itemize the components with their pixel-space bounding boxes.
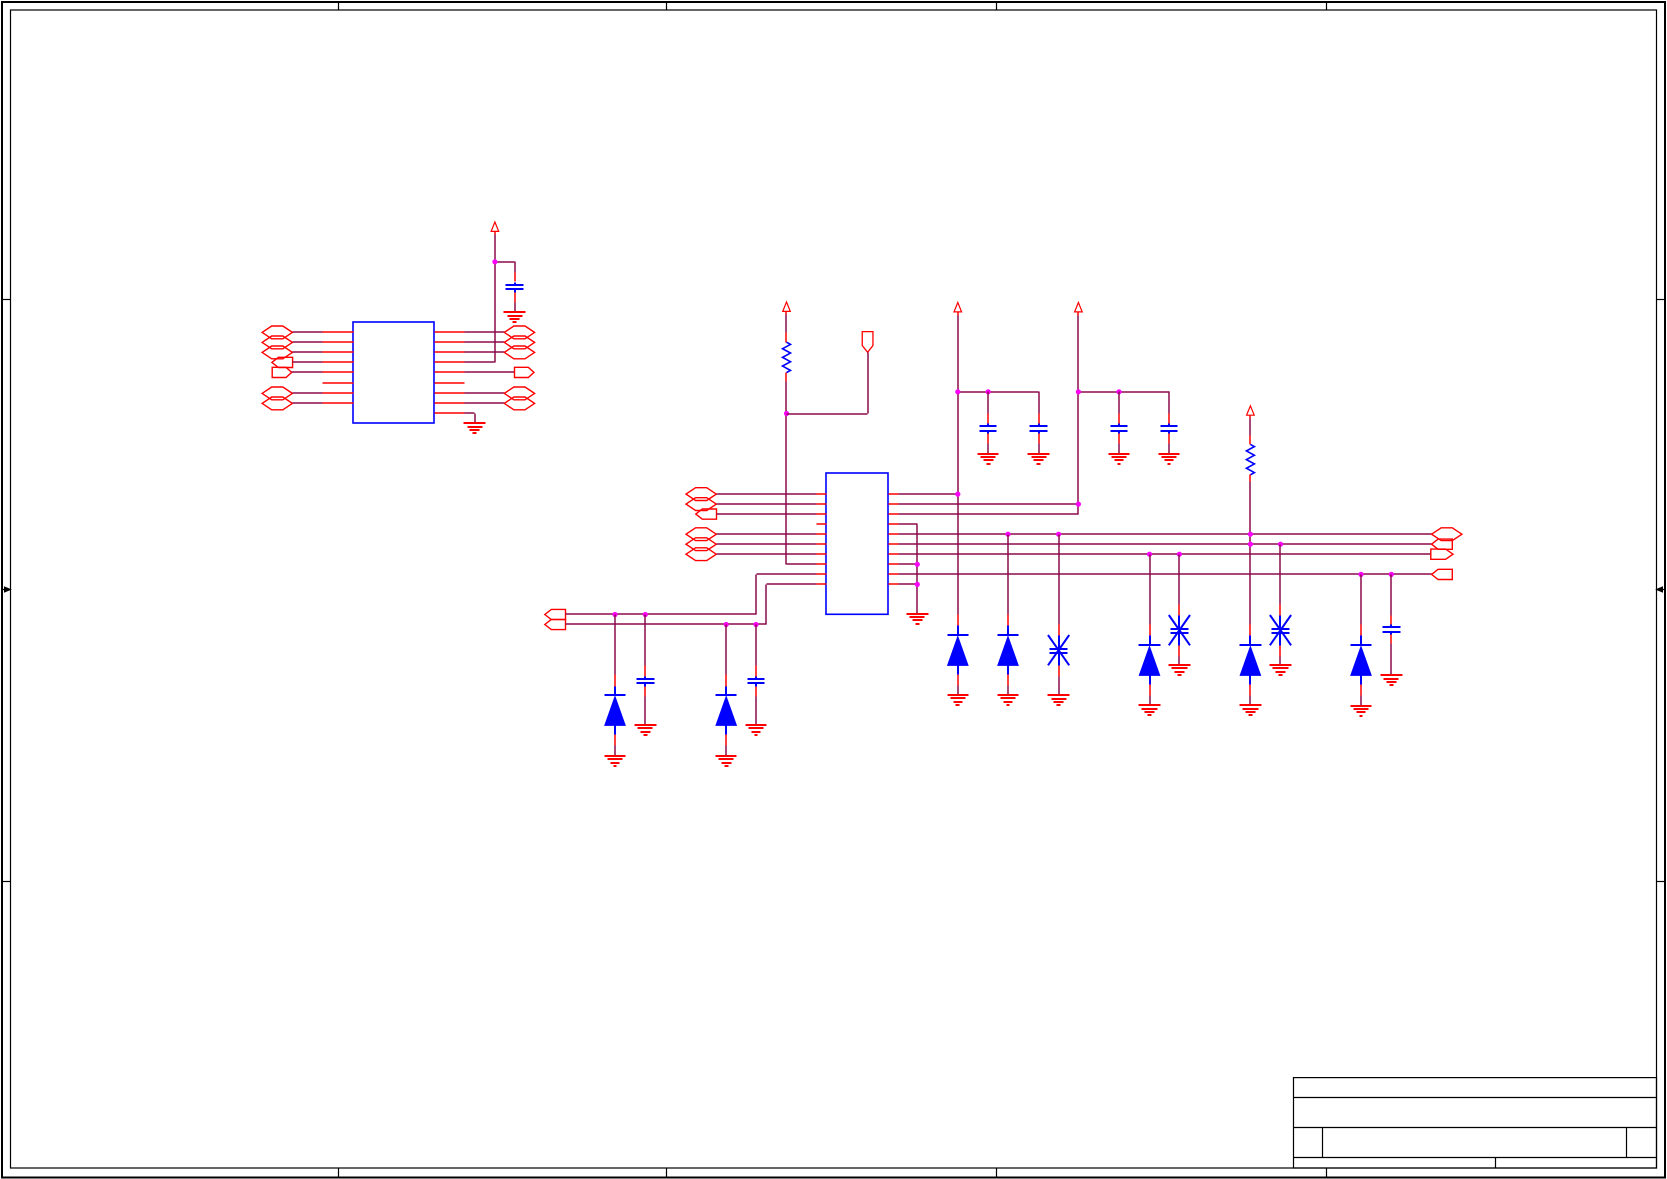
wire [293, 341, 323, 343]
U1 right pin y393 [435, 392, 465, 394]
port (input) J-bottom b [545, 619, 566, 629]
junction [1389, 572, 1394, 577]
port (output) right row554 [1431, 549, 1453, 559]
ground [978, 454, 999, 464]
U1 left pin y332 [323, 331, 354, 333]
wire [293, 351, 323, 353]
U2 left pin y574 [817, 573, 827, 575]
IC U1 [353, 322, 434, 423]
junction [784, 411, 789, 416]
U1 right pin y413 [435, 412, 465, 414]
U1 right pin y403 [435, 402, 465, 404]
wire [1249, 475, 1251, 625]
port (hex) U1 left y403 [262, 397, 292, 410]
U2 right pin y544 [889, 543, 899, 545]
U1 right pin y383 [435, 382, 465, 384]
wire row574 [899, 573, 1432, 575]
port (hex) U1 right y352 [504, 346, 534, 359]
junction [724, 622, 729, 627]
wire net row614 [566, 574, 817, 615]
port (input) J-bottom a [545, 609, 566, 619]
power symbol VCC P4 [1247, 406, 1255, 415]
power symbol VCC P1 [954, 303, 962, 312]
capacitor C7 [748, 625, 765, 725]
U2 left pin y514 [817, 513, 827, 515]
junction [955, 389, 960, 394]
U1 left pin y362 [323, 361, 354, 363]
wire VCC P3 [1078, 312, 1170, 515]
ground [504, 312, 526, 322]
port (hex) U1 right y332 [504, 326, 534, 339]
junction [492, 259, 497, 264]
U1 right pin y362 [435, 361, 465, 363]
junction [612, 612, 617, 617]
ground [1270, 665, 1292, 675]
port (hex) U1 right y342 [504, 336, 534, 349]
U2 left pin y524 [817, 523, 827, 525]
wire [717, 553, 817, 555]
diode D2 [716, 625, 737, 756]
wire [787, 353, 869, 415]
power flag [862, 332, 873, 353]
U1 left pin y403 [323, 402, 354, 404]
capacitor C6 [637, 615, 655, 725]
wire [293, 392, 323, 394]
ground [464, 423, 486, 433]
U2 left pin y504 [817, 503, 827, 505]
ground [1381, 675, 1403, 685]
resistor R2 [1246, 444, 1254, 474]
junction [1358, 572, 1363, 577]
ground [998, 695, 1019, 705]
port (input) U2 left [696, 509, 717, 519]
junction [1248, 532, 1253, 537]
port (hex) U1 right y403 [504, 397, 534, 410]
wire [292, 371, 323, 373]
port (hex) U1 left y352 [262, 346, 292, 359]
ground [1139, 705, 1161, 715]
IC U2 [826, 473, 888, 614]
U1 left pin y372 [323, 371, 354, 373]
TVS D8 [1048, 535, 1069, 696]
port (input) U1 left [272, 357, 293, 367]
port (hex) U2 left y554 [686, 548, 716, 561]
port (hex) right row534 [1432, 528, 1462, 541]
ground [605, 756, 626, 766]
U1 right pin y372 [435, 371, 465, 373]
port (hex) U1 left y393 [262, 387, 292, 400]
port (output) U1 left [272, 367, 292, 377]
U2 left pin y494 [817, 493, 827, 495]
wire row504 [899, 503, 1079, 505]
U2 left pin y544 [817, 543, 827, 545]
wire VCC P4 [1249, 416, 1251, 445]
power symbol VCC P2 [783, 302, 791, 311]
U1 right pin y352 [435, 351, 465, 353]
port (hex) U1 right y393 [504, 387, 534, 400]
power symbol VCC A [491, 222, 499, 231]
wire U2 gnd net [899, 524, 918, 614]
diode D3 [948, 615, 969, 695]
wire [465, 341, 505, 343]
ground [907, 614, 929, 624]
U1 left pin y342 [323, 341, 354, 343]
resistor R1 [783, 342, 791, 372]
wire [293, 402, 323, 404]
ground [746, 725, 767, 735]
wire [717, 493, 817, 495]
wire VCC A [465, 232, 515, 363]
U2 right pin y504 [889, 503, 899, 505]
power symbol VCC P3 [1075, 303, 1083, 312]
port (hex) U1 left y342 [262, 336, 292, 349]
ground [1169, 665, 1191, 675]
ground [1109, 454, 1130, 464]
port (output) U1 right [515, 367, 535, 377]
junction [1147, 552, 1152, 557]
wire row544 [899, 543, 1432, 545]
port (hex) U2 left y544 [686, 538, 716, 551]
port (hex) U1 left y332 [262, 326, 292, 339]
junction [753, 622, 758, 627]
U1 right pin y332 [435, 331, 465, 333]
wire [465, 351, 505, 353]
diode D6 [1240, 625, 1262, 706]
capacitor C4 [1111, 392, 1128, 454]
wire [465, 371, 515, 373]
ground [1028, 454, 1050, 464]
junction [643, 612, 648, 617]
junction [1116, 389, 1121, 394]
wire [293, 331, 323, 333]
port (input) right row574 [1432, 569, 1453, 579]
U2 right pin y574 [889, 573, 899, 575]
junction [955, 492, 960, 497]
ground [948, 695, 969, 705]
wire row514 [899, 513, 1079, 515]
wire [465, 331, 505, 333]
port (input) right row544 [1432, 539, 1453, 549]
wire net row624 [566, 584, 817, 625]
diode D7 [1351, 575, 1372, 706]
wire [717, 503, 817, 505]
junction [1177, 552, 1182, 557]
junction [1076, 502, 1081, 507]
TVS D9 [1169, 555, 1190, 665]
junction [1005, 532, 1010, 537]
U2 left pin y534 [817, 533, 827, 535]
wire row494 [899, 493, 958, 495]
port (hex) U2 left y534 [686, 528, 716, 541]
diode D1 [605, 615, 626, 756]
junction [1248, 542, 1253, 547]
wire VCC P1 [958, 312, 1040, 615]
U2 right pin y564 [889, 563, 899, 565]
U2 right pin y534 [889, 533, 899, 535]
wire [293, 361, 323, 363]
junction [1076, 389, 1081, 394]
wire [465, 402, 505, 404]
junction [986, 389, 991, 394]
diode D4 [998, 535, 1019, 695]
U2 right pin y494 [889, 493, 899, 495]
ground [1351, 706, 1372, 716]
junction [915, 562, 920, 567]
U1 right pin y342 [435, 341, 465, 343]
U2 right pin y524 [889, 523, 899, 525]
U1 left pin y393 [323, 392, 354, 394]
U2 left pin y584 [817, 583, 827, 585]
capacitor C2 [980, 392, 997, 454]
U2 left pin y554 [817, 553, 827, 555]
wire [786, 373, 817, 565]
diode D5 [1139, 555, 1161, 706]
ground [1240, 705, 1262, 715]
wire row534 [899, 533, 1432, 535]
wire [465, 392, 505, 394]
wire [717, 513, 817, 515]
TVS D10 [1270, 545, 1291, 665]
U2 right pin y514 [889, 513, 899, 515]
junction [915, 582, 920, 587]
capacitor C8 [1383, 575, 1401, 676]
capacitor C1 [506, 262, 524, 312]
capacitor C3 [1030, 414, 1048, 454]
U2 right pin y584 [889, 583, 899, 585]
wire [717, 533, 817, 535]
port (hex) U2 left y494 [686, 488, 716, 501]
U1 left pin y352 [323, 351, 354, 353]
port (hex) U2 left y504 [686, 498, 716, 511]
wire [785, 312, 787, 343]
capacitor C5 [1161, 414, 1178, 454]
junction [1056, 532, 1061, 537]
ground [635, 725, 657, 735]
ground [1159, 454, 1180, 464]
wire row554 [899, 553, 1431, 555]
ground [716, 756, 737, 766]
ground [1048, 695, 1070, 705]
U2 right pin y554 [889, 553, 899, 555]
wire U1 gnd [465, 413, 476, 424]
wire [717, 543, 817, 545]
junction [1278, 542, 1283, 547]
U2 left pin y564 [817, 563, 827, 565]
U1 left pin y383 [323, 382, 354, 384]
